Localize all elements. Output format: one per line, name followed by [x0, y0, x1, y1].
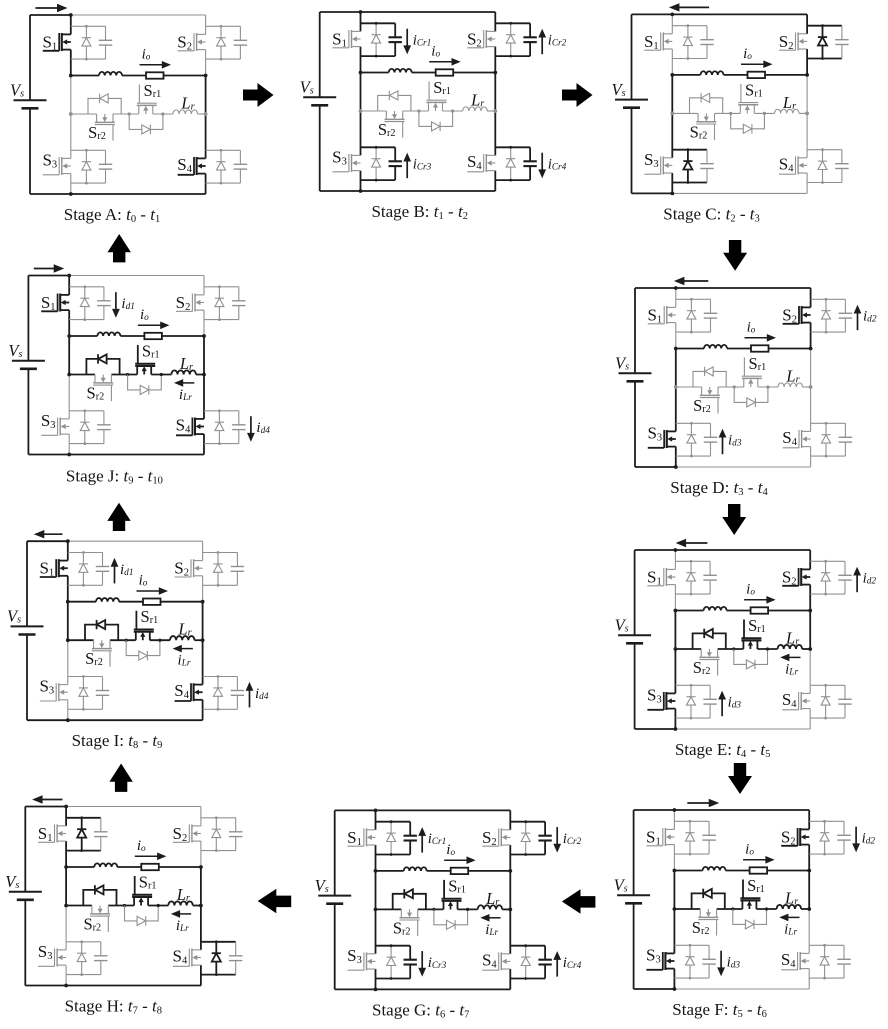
current arrow io stage H	[135, 855, 159, 857]
wire snubber box top D1C1 stage I	[68, 552, 103, 554]
diode D3 stage G	[390, 946, 392, 979]
wire snubber box bottom D4C4 stage D	[811, 455, 846, 457]
node D1 top stage H	[80, 816, 83, 819]
wire top rail left stage C	[632, 13, 673, 15]
wire snubber box top D1C1 stage C	[672, 25, 707, 27]
capacitor C1 stage J	[103, 287, 105, 301]
wire Sr1 antiparallel loop stage G	[434, 909, 468, 924]
wire snubber box top D1C1 stage E	[675, 560, 710, 562]
current direction arrow stage H	[41, 799, 62, 801]
capacitor C2 stage J	[238, 287, 240, 301]
transistor S4 stage C	[798, 157, 808, 159]
current arrow id1 stage I	[114, 565, 116, 583]
diode D2 stage D	[825, 299, 827, 332]
diode D2 stage E	[825, 561, 827, 594]
svg-text:Stage F: t5 - t6: Stage F: t5 - t6	[672, 1000, 767, 1020]
capacitor C3 stage J	[103, 411, 105, 425]
node D3 top stage J	[83, 409, 86, 412]
inductor output filter stage A	[99, 72, 122, 76]
current direction arrow stage D	[683, 280, 708, 282]
wire output branch left stage J	[69, 335, 97, 337]
wire right leg mid stage I	[202, 602, 204, 641]
diode Dr1 stage A	[142, 125, 150, 134]
wire output branch right stage I	[161, 601, 203, 603]
transistor S3 stage I	[58, 684, 68, 686]
wire clamp diode loop stage E	[693, 633, 726, 649]
current arrow iCr2 stage B	[541, 36, 543, 54]
wire bottom rail left stage D	[635, 466, 676, 468]
diode D4 stage E	[825, 685, 827, 718]
node bottom-left junction stage D	[674, 465, 678, 469]
battery Vs stage G	[318, 895, 351, 897]
node D1 bottom stage J	[83, 318, 86, 321]
node D3 bottom stage A	[85, 182, 88, 185]
node D2 bottom stage C	[821, 57, 824, 60]
node resonant-left junction stage F	[673, 907, 677, 911]
node output-right junction stage A	[204, 74, 208, 78]
resistor output load stage E	[751, 607, 769, 613]
transistor S4 stage J	[195, 418, 205, 420]
current arrow id3 stage D	[722, 436, 724, 454]
transistor S4 stage E	[801, 692, 811, 694]
wire right leg upper stage D	[810, 288, 812, 307]
diode clamp Dr2 stage I	[97, 620, 105, 629]
wire snubber box bottom D3C3 stage G	[376, 978, 411, 980]
diode D2 stage I	[217, 553, 219, 586]
wire right leg upper stage E	[809, 550, 811, 569]
transistor S4 stage B	[486, 154, 496, 156]
current arrow id2 stage E	[856, 574, 858, 592]
wire resonant rail seg1 stage J	[69, 374, 95, 376]
capacitor C1 stage I	[102, 553, 104, 567]
transistor S3 stage J	[60, 418, 69, 420]
current arrow iLr stage E	[788, 656, 801, 658]
node D2 bottom stage F	[823, 853, 826, 856]
wire top rail left stage I	[27, 540, 68, 542]
capacitor C1 stage G	[409, 822, 411, 836]
node top-left junction stage J	[67, 274, 71, 278]
transistor Sr1 stage H	[133, 897, 135, 906]
wire resonant rail seg2 stage F	[717, 908, 743, 910]
transistor Sr1 stage G	[443, 901, 445, 910]
node D4 bottom stage J	[218, 442, 221, 445]
node resonant mid-left stage C	[729, 112, 732, 115]
diode clamp Dr2 stage E	[704, 629, 712, 638]
wire bottom rail left stage E	[635, 728, 676, 730]
node D1 bottom stage B	[375, 55, 378, 58]
current arrow io stage G	[444, 859, 468, 861]
node D1 bottom stage I	[82, 584, 85, 587]
wire bottom rail right stage H	[66, 985, 201, 987]
current arrow io stage F	[743, 859, 767, 861]
transistor S4 stage G	[501, 953, 511, 955]
current arrow iCr1 stage B	[406, 29, 408, 47]
diode D1 stage E	[690, 561, 692, 594]
wire top rail right stage F	[674, 809, 809, 811]
svg-text:Stage J: t9 - t10: Stage J: t9 - t10	[66, 467, 163, 487]
wire Sr1 antiparallel loop stage H	[125, 906, 159, 921]
inductor output filter stage B	[389, 69, 412, 73]
wire left leg upper stage I	[67, 541, 69, 560]
diode Dr1 stage G	[447, 920, 455, 929]
wire Sr1 antiparallel loop stage A	[129, 114, 163, 129]
wire right leg lower stage D	[810, 387, 812, 431]
resistor output load stage I	[143, 599, 161, 605]
wire source rail stage H	[24, 807, 26, 892]
node resonant mid-left stage G	[432, 908, 435, 911]
node D2 top stage J	[218, 285, 221, 288]
transistor Sr2 stage D	[701, 387, 703, 395]
wire bottom rail left stage G	[335, 988, 376, 990]
node D1 top stage I	[82, 551, 85, 554]
wire source rail stage B	[319, 12, 321, 97]
node resonant-left junction stage B	[359, 109, 363, 113]
wire left leg mid stage G	[375, 871, 377, 910]
wire resonant rail seg3 stage A	[153, 113, 173, 115]
wire left leg lower stage I	[67, 640, 69, 684]
node D1 top stage G	[390, 820, 393, 823]
wire snubber box top D3C3 stage C	[672, 149, 707, 151]
node D1 top stage B	[375, 22, 378, 25]
wire top rail right stage G	[376, 809, 511, 811]
resistor output load stage G	[451, 868, 469, 874]
wire left leg lower stage A	[70, 114, 72, 158]
node D1 bottom stage E	[690, 593, 693, 596]
wire resonant rail seg4 stage G	[502, 908, 510, 910]
wire output branch mid stage D	[727, 348, 751, 350]
wire snubber box top D4C4 stage B	[495, 146, 530, 148]
current arrow io stage C	[741, 63, 765, 65]
battery Vs stage I	[11, 625, 44, 627]
transistor Sr2 stage G	[400, 909, 402, 917]
current arrow iCr3 stage B	[406, 160, 408, 178]
wire snubber box bottom D2C2 stage D	[811, 331, 846, 333]
node resonant-left junction stage C	[670, 112, 674, 116]
node resonant-right junction stage G	[508, 908, 512, 912]
battery Vs stage C	[615, 99, 648, 101]
wire left leg upper stage J	[68, 276, 70, 295]
wire snubber box bottom D1C1 stage A	[71, 58, 106, 60]
node bottom-left junction stage C	[670, 192, 674, 196]
node D1 bottom stage G	[390, 853, 393, 856]
node output-right junction stage E	[808, 609, 812, 613]
wire resonant rail seg2 stage B	[403, 110, 429, 112]
svg-text:Stage G: t6 - t7: Stage G: t6 - t7	[372, 1000, 469, 1020]
diode D1 stage B	[375, 23, 377, 56]
node resonant-left junction stage A	[69, 112, 73, 116]
node resonant mid-right stage B	[451, 109, 454, 112]
diode clamp Dr2 stage B	[390, 91, 398, 100]
wire left leg lower stage G	[375, 909, 377, 953]
wire snubber box top D3C3 stage E	[675, 684, 710, 686]
node D2 top stage D	[825, 298, 828, 301]
wire snubber box top D4C4 stage G	[510, 945, 545, 947]
inductor output filter stage C	[701, 71, 724, 75]
wire output branch right stage F	[767, 870, 809, 872]
node resonant mid-left stage A	[128, 112, 131, 115]
transistor S1 stage D	[666, 306, 676, 308]
node D4 bottom stage A	[220, 182, 223, 185]
node D2 bottom stage E	[824, 593, 827, 596]
battery Vs stage E	[618, 634, 651, 636]
wire right leg lower stage H	[200, 906, 202, 950]
wire snubber box bottom D1C1 stage I	[68, 584, 103, 586]
wire right leg lower stage G	[509, 909, 511, 953]
node top-left junction stage E	[674, 548, 678, 552]
capacitor C3 stage I	[102, 677, 104, 691]
wire bottom rail left stage J	[28, 454, 69, 456]
wire left leg upper stage A	[70, 15, 72, 34]
wire source rail stage D	[634, 288, 636, 373]
node D3 bottom stage I	[82, 708, 85, 711]
current arrow id3 stage E	[721, 698, 723, 716]
wire bottom rail right stage A	[71, 193, 206, 195]
node resonant-left junction stage E	[674, 647, 678, 651]
wire snubber box top D3C3 stage J	[69, 410, 104, 412]
wire output branch left stage G	[376, 870, 404, 872]
node resonant mid-right stage I	[158, 639, 161, 642]
wire Sr1 antiparallel loop stage C	[731, 113, 765, 128]
wire top rail left stage H	[25, 806, 66, 808]
wire top rail left stage B	[320, 11, 361, 13]
current arrow io stage E	[744, 599, 768, 601]
wire snubber box top D2C2 stage I	[203, 552, 238, 554]
wire resonant rail seg3 stage D	[758, 386, 778, 388]
wire snubber box top D2C2 stage H	[201, 817, 236, 819]
battery Vs stage B	[303, 96, 336, 98]
capacitor C4 stage I	[236, 677, 238, 691]
wire resonant rail seg4 stage D	[803, 386, 811, 388]
node output-left junction stage B	[359, 71, 363, 75]
wire source rail stage I	[26, 541, 28, 626]
capacitor C4 stage A	[239, 150, 241, 164]
node resonant-left junction stage I	[66, 638, 70, 642]
wire left leg mid stage J	[68, 336, 70, 375]
node bottom-left junction stage A	[69, 192, 73, 196]
node D3 bottom stage G	[390, 977, 393, 980]
capacitor C4 stage B	[529, 147, 531, 161]
transistor S3 stage E	[666, 692, 676, 694]
node top-left junction stage G	[374, 809, 378, 813]
wire top rail left stage E	[635, 549, 676, 551]
node D1 top stage F	[689, 820, 692, 823]
wire snubber box bottom D3C3 stage E	[675, 717, 710, 719]
wire resonant rail seg3 stage I	[150, 639, 170, 641]
transistor Sr2 stage B	[385, 111, 387, 119]
wire snubber box top D1C1 stage A	[71, 25, 106, 27]
wire left leg lower stage J	[68, 375, 70, 419]
wire left leg upper stage H	[65, 807, 67, 826]
node D4 bottom stage H	[215, 973, 218, 976]
node D1 bottom stage C	[687, 57, 690, 60]
diode D3 stage C	[687, 150, 689, 183]
transistor Sr1 stage B	[428, 102, 430, 111]
wire output branch mid stage E	[727, 610, 751, 612]
node resonant mid-left stage D	[733, 385, 736, 388]
node resonant mid-right stage C	[763, 112, 766, 115]
node D4 top stage H	[215, 940, 218, 943]
wire output branch mid stage C	[724, 74, 748, 76]
wire snubber box top D3C3 stage G	[376, 945, 411, 947]
wire resonant rail seg2 stage D	[718, 386, 744, 388]
resistor output load stage A	[146, 72, 164, 78]
svg-text:Stage E: t4 - t5: Stage E: t4 - t5	[675, 740, 771, 760]
node D3 top stage C	[687, 148, 690, 151]
diode D4 stage A	[220, 150, 222, 183]
node output-left junction stage H	[64, 865, 68, 869]
node top-left junction stage A	[69, 13, 73, 17]
svg-text:Stage A: t0 - t1: Stage A: t0 - t1	[64, 205, 160, 225]
wire top rail right stage J	[69, 275, 204, 277]
wire snubber box bottom D1C1 stage B	[361, 55, 396, 57]
transistor Sr1 stage E	[742, 640, 744, 649]
wire right leg lower stage B	[494, 111, 496, 155]
node D3 top stage E	[690, 684, 693, 687]
wire snubber box bottom D2C2 stage E	[810, 593, 845, 595]
capacitor C4 stage H	[235, 942, 237, 956]
wire snubber box top D2C2 stage F	[809, 820, 844, 822]
wire resonant rail seg3 stage E	[757, 648, 777, 650]
diode clamp Dr2 stage G	[405, 889, 413, 898]
wire resonant rail seg4 stage A	[198, 113, 206, 115]
wire resonant rail seg4 stage B	[487, 110, 495, 112]
wire right leg mid stage G	[509, 871, 511, 910]
wire output branch right stage D	[769, 348, 811, 350]
node output-right junction stage C	[805, 73, 809, 77]
transistor S2 stage F	[800, 828, 810, 830]
wire right leg mid stage D	[810, 349, 812, 388]
inductor Lr stage B	[463, 107, 487, 111]
flow arrow stage C to D	[723, 240, 747, 271]
capacitor C2 stage B	[529, 23, 531, 37]
wire clamp diode loop stage F	[692, 893, 725, 909]
flow arrow stage B to C	[562, 83, 593, 107]
wire snubber box top D3C3 stage F	[674, 944, 709, 946]
wire snubber box top D4C4 stage A	[206, 149, 241, 151]
wire resonant rail seg1 stage D	[676, 386, 702, 388]
wire snubber box bottom D3C3 stage J	[69, 443, 104, 445]
diode Dr1 stage C	[743, 124, 751, 133]
node D4 top stage I	[217, 675, 220, 678]
battery Vs stage J	[12, 360, 45, 362]
wire resonant rail seg1 stage B	[361, 110, 387, 112]
current arrow io stage A	[140, 64, 164, 66]
diode D3 stage E	[690, 685, 692, 718]
capacitor C2 stage H	[235, 818, 237, 832]
svg-text:Stage C: t2 - t3: Stage C: t2 - t3	[663, 204, 759, 224]
wire right leg mid stage B	[494, 73, 496, 112]
battery Vs stage H	[9, 891, 42, 893]
flow arrow stage A to B	[243, 83, 274, 107]
node D2 top stage C	[821, 24, 824, 27]
node D1 bottom stage A	[85, 58, 88, 61]
wire right leg mid stage A	[205, 76, 207, 115]
node output-right junction stage D	[809, 347, 813, 351]
transistor S3 stage C	[663, 157, 673, 159]
transistor S3 stage H	[57, 949, 67, 951]
node D4 bottom stage D	[825, 455, 828, 458]
wire resonant rail seg2 stage H	[108, 905, 134, 907]
capacitor C3 stage A	[105, 150, 107, 164]
node D2 top stage I	[217, 551, 220, 554]
flow arrow stage E to F	[728, 763, 752, 794]
wire left leg lower stage C	[671, 113, 673, 157]
wire snubber box bottom D2C2 stage G	[510, 854, 545, 856]
wire top rail right stage H	[66, 806, 201, 808]
capacitor C4 stage C	[841, 150, 843, 164]
wire clamp diode loop stage I	[85, 625, 118, 641]
node D4 top stage C	[821, 148, 824, 151]
wire Sr1 antiparallel loop stage E	[734, 649, 768, 664]
node resonant mid-left stage E	[732, 647, 735, 650]
current direction arrow stage F	[687, 802, 710, 804]
diode D4 stage C	[822, 150, 824, 183]
node resonant mid-right stage A	[161, 112, 164, 115]
inductor output filter stage E	[704, 607, 727, 611]
node D4 bottom stage G	[524, 977, 527, 980]
wire snubber box bottom D3C3 stage C	[672, 182, 707, 184]
wire snubber box bottom D2C2 stage J	[204, 319, 239, 321]
wire left leg mid stage H	[65, 867, 67, 906]
wire source rail stage G	[334, 810, 336, 895]
wire Sr1 antiparallel loop stage J	[128, 375, 162, 390]
transistor S2 stage B	[486, 30, 496, 32]
wire snubber box top D2C2 stage J	[204, 286, 239, 288]
transistor S1 stage J	[60, 294, 69, 296]
transistor Sr1 stage C	[739, 105, 741, 114]
wire snubber box top D4C4 stage J	[204, 410, 239, 412]
diode D4 stage H	[215, 942, 217, 975]
diode D1 stage C	[687, 26, 689, 59]
wire snubber box top D4C4 stage D	[811, 422, 846, 424]
transistor S3 stage A	[61, 157, 71, 159]
wire right leg lower stage A	[205, 114, 207, 158]
wire left leg mid stage B	[360, 73, 362, 112]
capacitor C2 stage G	[544, 822, 546, 836]
current arrow io stage I	[137, 590, 161, 592]
resistor output load stage D	[751, 345, 769, 351]
node D2 bottom stage I	[217, 584, 220, 587]
transistor Sr2 stage H	[91, 906, 93, 914]
wire Sr1 antiparallel loop stage F	[733, 909, 767, 924]
svg-text:Stage H: t7 - t8: Stage H: t7 - t8	[65, 997, 162, 1017]
wire left leg mid stage E	[674, 611, 676, 650]
wire top rail right stage E	[675, 549, 810, 551]
node output-left junction stage J	[67, 334, 71, 338]
node output-right junction stage I	[201, 600, 205, 604]
wire bottom rail right stage F	[674, 988, 809, 990]
node D1 top stage C	[687, 24, 690, 27]
node resonant-right junction stage I	[201, 638, 205, 642]
diode clamp Dr2 stage A	[100, 94, 108, 103]
node bottom-left junction stage H	[64, 984, 68, 988]
transistor S2 stage D	[801, 306, 811, 308]
transistor Sr1 stage F	[741, 900, 743, 909]
wire output branch left stage C	[672, 74, 700, 76]
wire snubber box top D1C1 stage G	[376, 821, 411, 823]
flow arrow stage G to H	[258, 889, 292, 913]
flow arrow stage I to J	[107, 503, 130, 531]
wire output branch left stage F	[674, 870, 702, 872]
wire top rail left stage D	[635, 287, 676, 289]
wire clamp diode loop stage D	[693, 371, 726, 387]
diode D3 stage F	[689, 945, 691, 978]
diode D2 stage B	[510, 23, 512, 56]
current arrow iCr2 stage G	[556, 827, 558, 845]
diode D2 stage F	[824, 821, 826, 854]
transistor S2 stage H	[191, 825, 201, 827]
node D3 top stage D	[690, 422, 693, 425]
